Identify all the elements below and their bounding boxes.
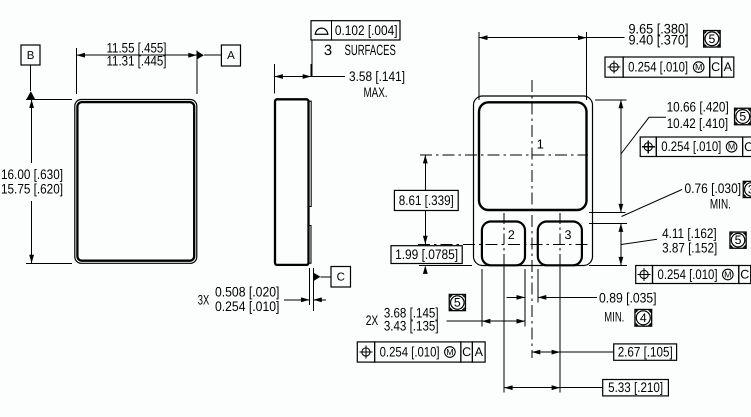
svg-text:0.254 [.010]: 0.254 [.010] bbox=[380, 345, 440, 360]
svg-text:B: B bbox=[27, 50, 35, 62]
svg-text:3: 3 bbox=[324, 43, 332, 59]
svg-text:MIN.: MIN. bbox=[604, 309, 624, 324]
svg-text:C: C bbox=[462, 345, 471, 359]
svg-text:3.43 [.135]: 3.43 [.135] bbox=[384, 319, 439, 334]
svg-text:C: C bbox=[740, 268, 749, 282]
svg-text:2.67 [.105]: 2.67 [.105] bbox=[618, 345, 673, 360]
svg-text:A: A bbox=[724, 60, 733, 74]
svg-text:10.66 [.420]: 10.66 [.420] bbox=[667, 99, 729, 114]
svg-text:MAX.: MAX. bbox=[364, 85, 388, 100]
svg-text:4: 4 bbox=[640, 311, 647, 325]
svg-text:5: 5 bbox=[708, 32, 715, 46]
svg-text:2X: 2X bbox=[366, 313, 379, 328]
svg-text:3X: 3X bbox=[198, 292, 210, 307]
svg-text:C: C bbox=[711, 60, 720, 74]
svg-text:0.254 [.010]: 0.254 [.010] bbox=[658, 267, 718, 282]
svg-text:0.76 [.030]: 0.76 [.030] bbox=[685, 181, 742, 196]
svg-text:0.254 [.010]: 0.254 [.010] bbox=[628, 60, 688, 75]
svg-text:1: 1 bbox=[537, 137, 544, 152]
svg-text:3: 3 bbox=[565, 228, 572, 242]
svg-text:9.40 [.370]: 9.40 [.370] bbox=[629, 33, 689, 48]
svg-text:11.31 [.445]: 11.31 [.445] bbox=[107, 53, 167, 68]
svg-text:15.75 [.620]: 15.75 [.620] bbox=[1, 182, 63, 197]
svg-text:0.254 [.010]: 0.254 [.010] bbox=[215, 299, 280, 314]
svg-text:8.61 [.339]: 8.61 [.339] bbox=[399, 193, 454, 208]
svg-text:M: M bbox=[446, 347, 453, 357]
svg-text:0.254 [.010]: 0.254 [.010] bbox=[661, 139, 721, 154]
svg-text:C: C bbox=[744, 140, 751, 154]
svg-text:1.99 [.0785]: 1.99 [.0785] bbox=[395, 247, 458, 262]
svg-text:M: M bbox=[724, 269, 731, 279]
svg-text:A: A bbox=[475, 345, 484, 359]
svg-text:3.58 [.141]: 3.58 [.141] bbox=[349, 69, 405, 84]
svg-text:5.33 [.210]: 5.33 [.210] bbox=[608, 380, 663, 395]
svg-text:M: M bbox=[728, 142, 735, 152]
svg-text:2: 2 bbox=[508, 228, 515, 242]
svg-text:M: M bbox=[695, 62, 702, 72]
svg-text:4.11 [.162]: 4.11 [.162] bbox=[662, 226, 717, 241]
svg-text:0.508 [.020]: 0.508 [.020] bbox=[215, 285, 280, 300]
svg-text:MIN.: MIN. bbox=[710, 197, 731, 212]
svg-text:A: A bbox=[227, 50, 235, 62]
svg-text:5: 5 bbox=[454, 296, 461, 310]
svg-text:0.89 [.035]: 0.89 [.035] bbox=[599, 290, 657, 305]
svg-text:0.102 [.004]: 0.102 [.004] bbox=[335, 23, 398, 38]
svg-text:SURFACES: SURFACES bbox=[345, 43, 396, 59]
svg-text:C: C bbox=[337, 272, 345, 284]
svg-text:5: 5 bbox=[739, 110, 746, 124]
svg-text:16.00 [.630]: 16.00 [.630] bbox=[1, 167, 63, 182]
svg-text:10.42 [.410]: 10.42 [.410] bbox=[667, 116, 728, 131]
svg-text:5: 5 bbox=[735, 233, 742, 247]
svg-text:3.87 [.152]: 3.87 [.152] bbox=[662, 240, 717, 255]
